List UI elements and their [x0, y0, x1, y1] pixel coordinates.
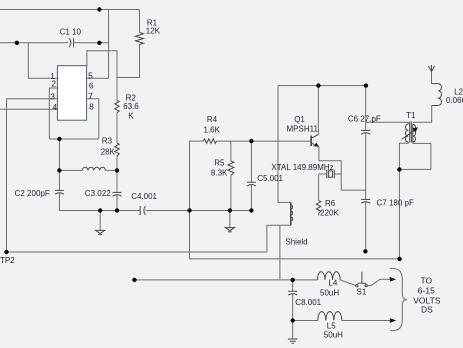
svg-text:L4: L4 [328, 278, 337, 287]
svg-text:0.066: 0.066 [446, 96, 463, 105]
svg-text:XTAL 149.89MHz: XTAL 149.89MHz [271, 163, 333, 172]
svg-text:C6 27.pF: C6 27.pF [348, 115, 381, 124]
svg-text:C7 180 pF: C7 180 pF [377, 198, 414, 207]
svg-text:8: 8 [89, 101, 94, 111]
svg-text:6: 6 [89, 80, 94, 90]
svg-text:5: 5 [88, 70, 93, 80]
svg-text:63.6: 63.6 [123, 102, 139, 111]
svg-text:R5: R5 [214, 158, 225, 167]
svg-text:S1: S1 [357, 288, 367, 297]
svg-text:50uH: 50uH [324, 331, 343, 340]
svg-text:C4.001: C4.001 [131, 192, 157, 201]
svg-text:C5.001: C5.001 [257, 174, 283, 183]
svg-text:12K: 12K [146, 26, 161, 35]
svg-text:T1: T1 [406, 111, 416, 120]
svg-text:50uH: 50uH [320, 288, 339, 297]
svg-text:28K: 28K [101, 147, 116, 156]
svg-text:C1 10: C1 10 [60, 28, 82, 37]
svg-text:TP2: TP2 [0, 256, 15, 265]
svg-text:DS: DS [421, 304, 433, 314]
svg-text:Shield: Shield [285, 238, 307, 247]
svg-text:1.6K: 1.6K [204, 125, 221, 134]
svg-text:4: 4 [52, 102, 57, 112]
svg-text:MPSH11: MPSH11 [287, 125, 319, 134]
svg-text:C2 200pF: C2 200pF [15, 189, 50, 198]
svg-text:7: 7 [88, 91, 93, 101]
svg-text:TO: TO [420, 276, 432, 286]
svg-text:R3: R3 [102, 136, 113, 145]
svg-text:L5: L5 [327, 322, 336, 331]
svg-text:8.3K: 8.3K [211, 168, 228, 177]
svg-text:K: K [128, 111, 134, 120]
svg-text:6-15: 6-15 [418, 286, 435, 296]
svg-text:R4: R4 [207, 115, 218, 124]
svg-text:C8.001: C8.001 [295, 298, 321, 307]
svg-text:3: 3 [50, 91, 55, 101]
svg-text:Q1: Q1 [294, 115, 305, 124]
svg-text:2: 2 [51, 79, 56, 89]
svg-text:R6: R6 [325, 199, 336, 208]
svg-text:220K: 220K [320, 209, 339, 218]
svg-text:C3.022: C3.022 [85, 189, 111, 198]
